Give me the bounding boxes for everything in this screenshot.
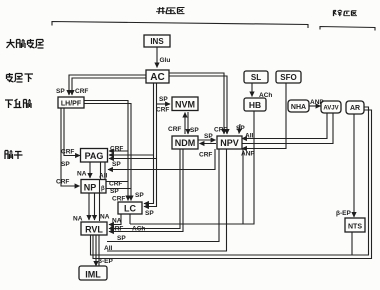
svg-text:CRF: CRF <box>156 107 169 114</box>
svg-text:SP: SP <box>61 161 70 168</box>
svg-text:NDM: NDM <box>175 138 196 148</box>
svg-text:AVJV: AVJV <box>323 106 338 112</box>
svg-text:SP: SP <box>204 133 213 140</box>
svg-text:β-EP: β-EP <box>98 258 113 265</box>
svg-text:LH/PF: LH/PF <box>61 101 82 108</box>
svg-text:β-EP: β-EP <box>336 210 351 217</box>
svg-text:CRF: CRF <box>199 152 212 159</box>
svg-text:ANP: ANP <box>241 151 255 158</box>
svg-text:NA: NA <box>112 218 122 225</box>
svg-text:CRF: CRF <box>75 88 88 95</box>
svg-text:IML: IML <box>85 270 101 280</box>
svg-text:CRF: CRF <box>110 146 123 153</box>
svg-text:β: β <box>101 186 105 192</box>
svg-text:HB: HB <box>249 100 261 110</box>
svg-text:AII: AII <box>245 133 254 140</box>
svg-text:NA: NA <box>77 171 87 178</box>
svg-text:NPV: NPV <box>220 138 239 148</box>
svg-text:SL: SL <box>251 73 261 82</box>
svg-text:NHA: NHA <box>291 104 306 111</box>
svg-text:SP: SP <box>117 235 126 242</box>
svg-text:ACh: ACh <box>132 226 145 233</box>
svg-text:AII: AII <box>99 173 108 180</box>
svg-text:SP: SP <box>56 88 65 95</box>
svg-text:SP: SP <box>190 127 199 134</box>
svg-text:CRF: CRF <box>168 126 181 133</box>
svg-text:SP: SP <box>236 125 245 132</box>
svg-text:LC: LC <box>124 204 136 214</box>
svg-text:SP: SP <box>112 161 121 168</box>
svg-text:CRF: CRF <box>56 179 69 186</box>
svg-text:CRF: CRF <box>112 196 125 203</box>
svg-text:AR: AR <box>350 105 360 112</box>
svg-text:NVM: NVM <box>175 100 195 110</box>
svg-text:CRF: CRF <box>110 226 123 233</box>
svg-text:NA: NA <box>100 214 110 221</box>
svg-text:SP: SP <box>110 188 119 195</box>
svg-text:Glu: Glu <box>160 57 171 64</box>
svg-text:CRF: CRF <box>109 181 122 188</box>
svg-text:CRF: CRF <box>61 149 74 156</box>
svg-text:INS: INS <box>150 37 164 46</box>
svg-text:SP: SP <box>135 192 144 199</box>
svg-text:PAG: PAG <box>85 151 104 161</box>
svg-text:NA: NA <box>73 216 83 223</box>
svg-text:NTS: NTS <box>348 224 362 231</box>
svg-text:SFO: SFO <box>280 73 296 82</box>
svg-text:AC: AC <box>150 72 164 83</box>
svg-text:ACh: ACh <box>259 92 272 99</box>
svg-text:NP: NP <box>84 183 97 193</box>
svg-text:ANP: ANP <box>310 99 324 106</box>
svg-text:RVL: RVL <box>85 225 103 235</box>
svg-text:SP: SP <box>159 96 168 103</box>
svg-text:SP: SP <box>145 210 154 217</box>
svg-text:CRF: CRF <box>214 127 227 134</box>
svg-text:AII: AII <box>104 245 113 252</box>
